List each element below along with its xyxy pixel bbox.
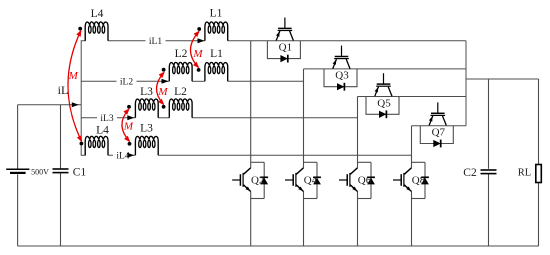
svg-text:M: M: [68, 70, 79, 82]
wire Q8 emitter to ground: [411, 192, 413, 247]
arrow iL1: [198, 38, 205, 43]
wire output bus vertical: [465, 41, 467, 126]
wire row3 rail from L2 to phase3 vertical: [192, 117, 357, 119]
wire C2 branch upper: [488, 79, 490, 169]
svg-text:Q4: Q4: [304, 175, 318, 187]
wire phase4 riser and vertical Q7-row4-Q8: [411, 126, 413, 168]
wire row3 rail from bus to L3 with iL3 arrow: [81, 117, 135, 119]
inductor L4 phase4 winding: [85, 136, 108, 155]
inductor L1 phase1 winding: [205, 22, 228, 41]
svg-text:500V: 500V: [31, 167, 49, 176]
coupling arrow M between L3 windings: [122, 108, 130, 142]
label L2 row3: [174, 86, 187, 98]
svg-text:M: M: [123, 120, 134, 132]
label C2: [463, 167, 477, 179]
wire row2 dip between L2 and L1: [192, 80, 205, 82]
label C1: [73, 166, 87, 178]
svg-text:L3: L3: [140, 123, 153, 135]
wire RL branch lower: [538, 183, 540, 247]
wire row4 rail from L4 to L3 with iL4 arrow: [108, 154, 135, 156]
label iL1: [146, 36, 166, 47]
inductor L3 phase3 winding: [135, 99, 158, 118]
label M L2 coupling: [157, 86, 168, 98]
capacitor C1: [53, 169, 69, 173]
svg-text:Q7: Q7: [432, 127, 446, 139]
wire Q3 rail to output bus: [304, 68, 467, 70]
coupling arrow M between L2 windings: [157, 72, 165, 106]
svg-text:Q2: Q2: [251, 175, 264, 187]
wire Q2 emitter to ground: [250, 192, 252, 247]
arrow iL2: [162, 79, 169, 84]
svg-text:L4: L4: [91, 8, 104, 20]
transistor Q1 with freewheel diode: [267, 18, 300, 63]
svg-text:Q6: Q6: [358, 175, 372, 187]
node dot L3 row4: [128, 142, 132, 146]
label M L3 coupling: [123, 120, 134, 132]
inductor L3 phase4 winding: [135, 136, 158, 155]
label L3 row3: [140, 86, 153, 98]
label M left coupling: [68, 70, 79, 82]
wire C1 branch upper: [60, 105, 62, 169]
wire row2 rail from bus to L2 with iL2 arrow: [81, 80, 169, 82]
wire left inductor bus vertical: [81, 32, 85, 155]
label L4 row4: [96, 125, 109, 137]
transistor Q3 with freewheel diode: [324, 46, 357, 91]
arrow iL3: [127, 115, 134, 120]
svg-text:L4: L4: [96, 125, 109, 137]
wire Q5 rail to output bus: [358, 96, 467, 98]
label L2 row2: [175, 48, 188, 60]
label L4 row1: [91, 8, 104, 20]
inductor L2 phase2 winding: [169, 62, 192, 81]
label iL3: [97, 113, 117, 124]
svg-text:M: M: [192, 48, 203, 60]
wire output rail to load: [466, 78, 539, 80]
label 500V: [31, 167, 49, 176]
svg-text:M: M: [157, 86, 168, 98]
svg-text:Q8: Q8: [412, 175, 426, 187]
wire bottom ground rail: [18, 245, 539, 247]
label L1 row2: [210, 48, 223, 60]
svg-text:L2: L2: [175, 48, 188, 60]
wire row3 dip between L3 and L2: [158, 117, 169, 119]
voltage source 500V battery: [6, 169, 29, 173]
wire input rail from source to inductor bus: [18, 104, 82, 106]
capacitor C2: [481, 170, 497, 174]
svg-text:L1: L1: [210, 48, 223, 60]
wire row2 rail from L1 to phase2 vertical: [228, 80, 304, 82]
svg-text:iL3: iL3: [100, 114, 113, 124]
transistor Q8 with freewheel diode: [393, 162, 429, 198]
transistor Q2 with freewheel diode: [232, 162, 268, 198]
wire Q4 emitter to ground: [303, 192, 305, 247]
label iL2: [117, 77, 137, 88]
node dot L2 row3: [162, 105, 166, 109]
node dot L4 row4: [80, 142, 84, 146]
arrow iL4: [127, 153, 134, 158]
wire Q7 rail to output bus: [412, 125, 467, 127]
transistor Q6 with freewheel diode: [339, 162, 375, 198]
svg-text:L1: L1: [210, 8, 223, 20]
label iL4: [113, 151, 133, 162]
svg-text:iL2: iL2: [120, 78, 133, 88]
svg-text:RL: RL: [518, 168, 531, 179]
coupling arrow M between L4 windings: [68, 30, 82, 143]
transistor Q5 with freewheel diode: [366, 73, 399, 118]
inductor L2 phase3 winding: [169, 99, 192, 118]
resistor RL: [536, 165, 542, 183]
wire row1 rail from L4 to L1 with iL1 arrow: [108, 40, 205, 42]
wire Q6 emitter to ground: [357, 192, 359, 247]
arrow iL input current: [72, 102, 79, 107]
wire row4 rail from L3 to phase4 vertical: [158, 154, 411, 156]
wire RL branch upper: [538, 79, 540, 165]
inductor L4 phase1 winding: [85, 22, 108, 41]
wire phase2 riser and vertical Q3-row2-Q4: [303, 69, 305, 168]
transistor Q7 with freewheel diode: [420, 102, 453, 147]
svg-text:C2: C2: [463, 167, 477, 179]
wire C1 branch lower: [60, 173, 62, 246]
wire row1 rail from L1 to output bus: [228, 40, 466, 42]
wire phase3 riser and vertical Q5-row3-Q6: [357, 97, 359, 168]
label M L1 coupling: [192, 48, 203, 60]
node dot L3 row3: [127, 105, 131, 109]
svg-text:Q1: Q1: [279, 42, 292, 54]
inductor L1 phase2 winding: [205, 62, 228, 81]
svg-text:L3: L3: [140, 86, 153, 98]
svg-text:C1: C1: [73, 166, 87, 178]
wire C2 branch lower: [488, 174, 490, 246]
label RL: [518, 168, 531, 179]
svg-text:L2: L2: [174, 86, 187, 98]
node dot L4 row1: [78, 27, 82, 31]
svg-text:iL: iL: [58, 83, 69, 97]
coupling arrow M between L1 windings: [190, 31, 199, 69]
wire source negative lead: [17, 174, 19, 246]
label iL input current: [58, 83, 69, 97]
label L3 row4: [140, 123, 153, 135]
svg-text:iL1: iL1: [149, 37, 162, 47]
label L1 row1: [210, 8, 223, 20]
wire phase1 vertical from row1 node down to Q2: [250, 41, 252, 168]
svg-text:Q3: Q3: [335, 70, 349, 82]
node dot L2 row2: [162, 68, 166, 72]
node dot L1 row2: [197, 68, 201, 72]
node dot L1 row1: [197, 27, 201, 31]
svg-text:Q5: Q5: [377, 97, 391, 109]
transistor Q4 with freewheel diode: [285, 162, 321, 198]
wire source positive lead: [17, 105, 19, 169]
